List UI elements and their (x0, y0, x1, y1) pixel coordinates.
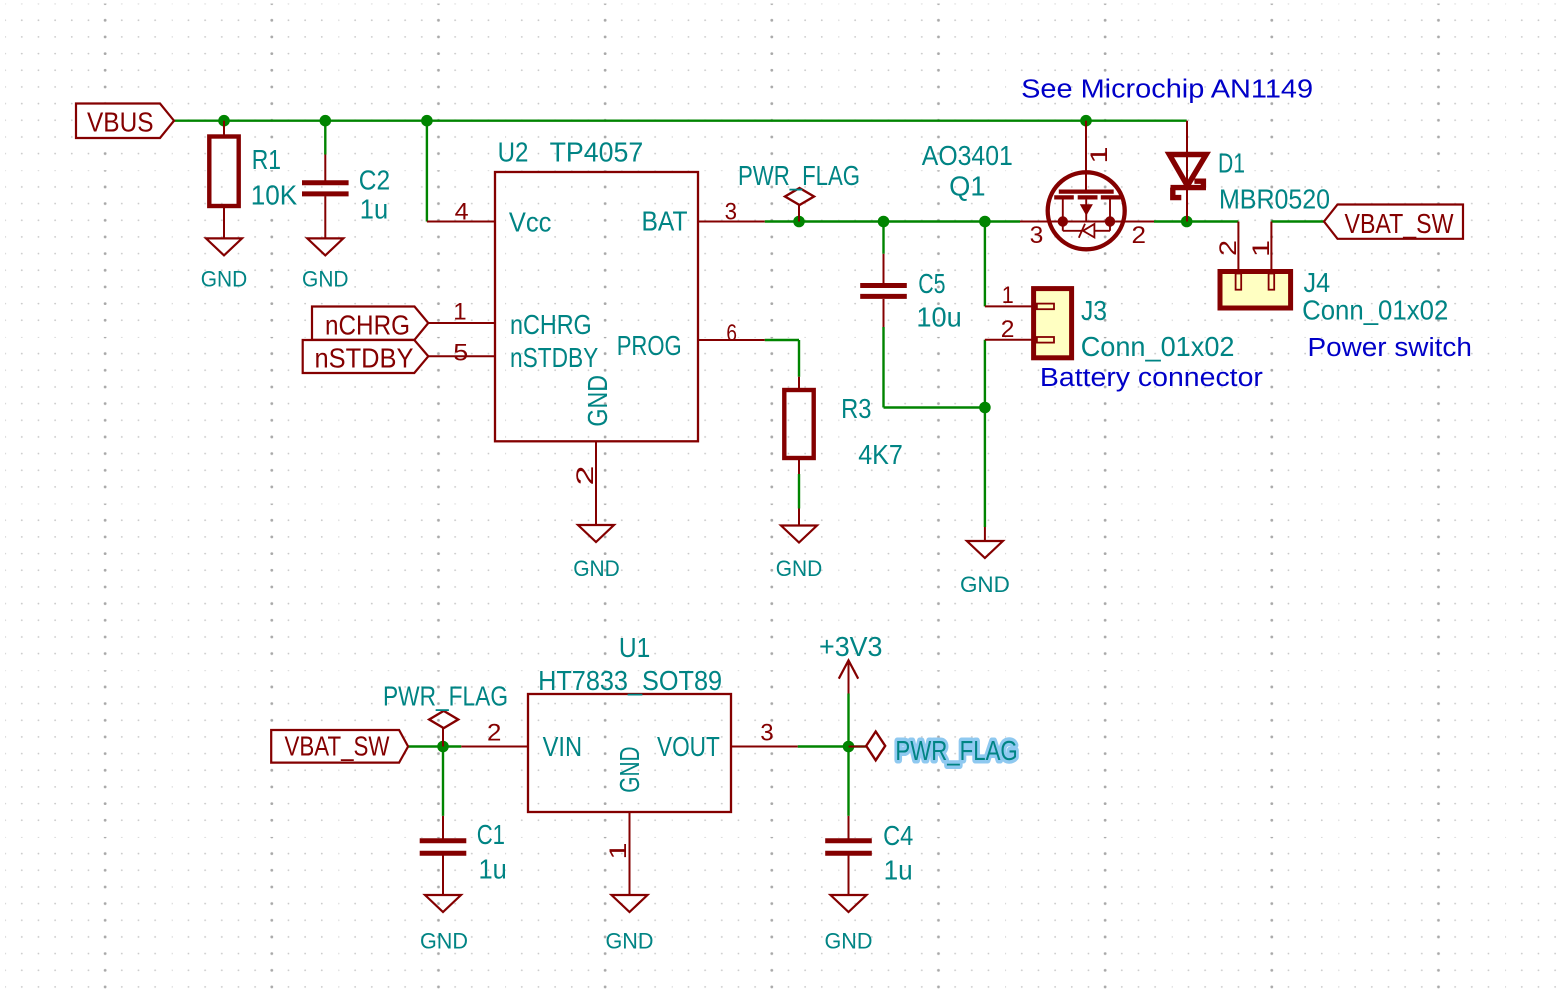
wire Q1 drain to D1 node (1154, 220, 1238, 222)
svg-text:GND: GND (573, 556, 620, 581)
pin 5 nSTDBY (428, 355, 495, 357)
wire C2 drop (324, 121, 326, 155)
wire Vcc drop (426, 121, 428, 222)
wire C5 top (882, 222, 884, 254)
wire C5 bottom (882, 327, 884, 408)
svg-text:Battery connector: Battery connector (1040, 362, 1263, 392)
wire PROG to R3 (765, 339, 799, 341)
capacitor C4 (848, 816, 850, 839)
wire +3V3 drop (847, 694, 849, 747)
svg-text:1: 1 (453, 299, 466, 326)
pin 3 Q1 (1020, 221, 1048, 223)
svg-text:R3: R3 (841, 393, 871, 424)
pin 2 VIN (461, 746, 528, 748)
resistor R3 (798, 377, 800, 390)
svg-text:1: 1 (1086, 147, 1113, 164)
wire C4 drop (847, 747, 849, 816)
svg-text:J4: J4 (1304, 267, 1331, 298)
junction (1186.7,221.5) (1181, 216, 1193, 228)
global label nSTDBY (303, 340, 429, 374)
ground R3 (781, 526, 817, 543)
svg-text:4K7: 4K7 (858, 439, 903, 470)
ground U1 (612, 895, 648, 912)
svg-text:C5: C5 (918, 268, 945, 299)
svg-text:GND: GND (201, 267, 248, 292)
svg-text:GND: GND (302, 267, 349, 292)
pin 2 J4 (1237, 222, 1239, 273)
junction (848.5,746.5) (843, 741, 855, 753)
global label VBUS (76, 104, 174, 139)
pin 1 J4 (1270, 222, 1272, 273)
gnd stem R3 (798, 509, 800, 526)
svg-text:10K: 10K (251, 180, 298, 211)
svg-text:J3: J3 (1081, 295, 1107, 326)
svg-text:VIN: VIN (543, 731, 583, 762)
pin 2 GND (595, 441, 597, 525)
svg-text:1u: 1u (360, 194, 388, 225)
svg-text:Vcc: Vcc (509, 207, 552, 238)
wire C1 drop (442, 747, 444, 816)
svg-text:2: 2 (1001, 316, 1015, 343)
ic U2 body (495, 172, 698, 441)
svg-text:3: 3 (760, 720, 773, 747)
svg-text:1u: 1u (884, 855, 913, 886)
svg-text:1: 1 (1002, 282, 1014, 309)
svg-text:U2: U2 (498, 137, 529, 168)
global label VBAT_SW top (1324, 205, 1463, 239)
svg-text:Q1: Q1 (949, 171, 985, 202)
svg-text:D1: D1 (1218, 148, 1245, 179)
svg-text:PWR_FLAG: PWR_FLAG (895, 735, 1017, 766)
svg-text:PWR_FLAG: PWR_FLAG (738, 160, 860, 191)
svg-text:3: 3 (725, 199, 737, 226)
svg-text:GND: GND (776, 556, 823, 581)
connector J4 body (1220, 272, 1291, 309)
svg-text:5: 5 (453, 340, 468, 367)
wire J4 pin1 to VBAT_SW (1271, 220, 1324, 222)
svg-text:Conn_01x02: Conn_01x02 (1081, 331, 1235, 362)
svg-text:4: 4 (455, 199, 469, 226)
svg-text:nCHRG: nCHRG (325, 310, 410, 341)
svg-text:GND: GND (825, 929, 873, 954)
svg-text:VOUT: VOUT (657, 731, 720, 762)
gnd stem battery (984, 527, 986, 541)
svg-text:1u: 1u (479, 854, 507, 885)
pin 1 J3 (985, 305, 1034, 307)
ground R1 (206, 238, 242, 255)
svg-text:GND: GND (606, 929, 654, 954)
svg-text:AO3401: AO3401 (922, 140, 1013, 171)
svg-text:+3V3: +3V3 (819, 631, 883, 662)
svg-text:Power switch: Power switch (1308, 332, 1472, 362)
svg-text:GND: GND (420, 929, 468, 954)
svg-text:VBAT_SW: VBAT_SW (1345, 208, 1454, 239)
wire VBAT_SW to U1 (408, 745, 461, 747)
svg-text:HT7833_SOT89: HT7833_SOT89 (538, 665, 722, 696)
pin 1 U1 (629, 812, 631, 895)
global label nCHRG (312, 307, 428, 341)
svg-text:nSTDBY: nSTDBY (315, 343, 414, 374)
svg-text:2: 2 (572, 466, 599, 486)
svg-text:GND: GND (960, 572, 1010, 597)
svg-text:PROG: PROG (617, 330, 682, 361)
svg-text:R1: R1 (252, 144, 281, 175)
wire R3 to gnd (798, 474, 800, 509)
junction (325.3,120.7) (320, 115, 332, 127)
pin 3 BAT (698, 221, 765, 223)
ground battery (967, 541, 1003, 558)
wire VOUT net (798, 745, 866, 747)
svg-text:2: 2 (1132, 222, 1147, 249)
svg-text:2: 2 (1215, 240, 1242, 256)
capacitor C1 (442, 816, 444, 839)
svg-text:VBAT_SW: VBAT_SW (285, 731, 390, 762)
svg-text:C1: C1 (477, 819, 505, 850)
junction (426.9,120.7) (421, 115, 433, 127)
svg-text:Conn_01x02: Conn_01x02 (1302, 295, 1448, 326)
junction (984.9,407.5) (979, 402, 991, 414)
junction (984.9,221.5) (979, 216, 991, 228)
wire BAT net (765, 220, 1020, 222)
ground C2 (307, 238, 343, 255)
global label VBAT_SW bottom (271, 730, 408, 763)
pin 1 nCHRG (428, 322, 495, 324)
power flag PF1 (798, 205, 800, 222)
svg-text:2: 2 (487, 720, 501, 747)
power flag PF2 (442, 728, 444, 747)
svg-text:GND: GND (614, 747, 645, 793)
wire J3 pin2 to gnd (984, 340, 986, 527)
svg-text:10u: 10u (916, 302, 961, 333)
resistor R1 (223, 121, 225, 137)
capacitor C5 (883, 254, 885, 283)
pin 6 PROG (698, 339, 765, 341)
svg-text:nSTDBY: nSTDBY (510, 342, 599, 373)
svg-text:GND: GND (582, 375, 613, 427)
junction (443,746.5) (437, 741, 449, 753)
svg-text:3: 3 (1030, 222, 1044, 249)
diode D1 MBR0520 (1186, 121, 1188, 222)
power symbol +3V3 (848, 660, 850, 693)
power flag PF3 (849, 746, 867, 748)
connector J3 body (1034, 289, 1072, 358)
wire C5 to gnd node (884, 406, 985, 408)
ic U1 body (528, 694, 731, 812)
transistor Q1 AO3401 (1085, 121, 1087, 192)
pin 4 Vcc (427, 221, 495, 223)
pin 2 J3 (985, 339, 1034, 341)
capacitor C2 (324, 155, 326, 181)
svg-text:6: 6 (726, 320, 737, 347)
svg-text:1: 1 (605, 843, 632, 860)
junction (883.5,221.5) (878, 216, 890, 228)
junction (1086,120.7) (1080, 115, 1092, 127)
svg-text:U1: U1 (619, 632, 650, 663)
svg-text:PWR_FLAG: PWR_FLAG (383, 681, 508, 712)
wire J3 pin1 drop (984, 222, 986, 307)
svg-text:C4: C4 (883, 820, 913, 851)
ground U2 (578, 525, 614, 542)
junction (799,221.5) (793, 216, 805, 228)
junction (224,120.7) (218, 115, 230, 127)
pin 2 Q1 (1125, 221, 1154, 223)
svg-text:VBUS: VBUS (87, 107, 154, 138)
svg-text:See Microchip AN1149: See Microchip AN1149 (1021, 74, 1313, 104)
svg-text:TP4057: TP4057 (550, 137, 644, 168)
svg-text:nCHRG: nCHRG (510, 309, 592, 340)
pin 3 VOUT (731, 746, 798, 748)
ground C4 (831, 895, 867, 912)
svg-text:C2: C2 (359, 165, 390, 196)
ground C1 (425, 895, 461, 912)
svg-text:MBR0520: MBR0520 (1219, 184, 1330, 215)
svg-text:1: 1 (1248, 240, 1275, 257)
svg-text:BAT: BAT (642, 206, 688, 237)
wire VBUS rail (174, 119, 1187, 121)
